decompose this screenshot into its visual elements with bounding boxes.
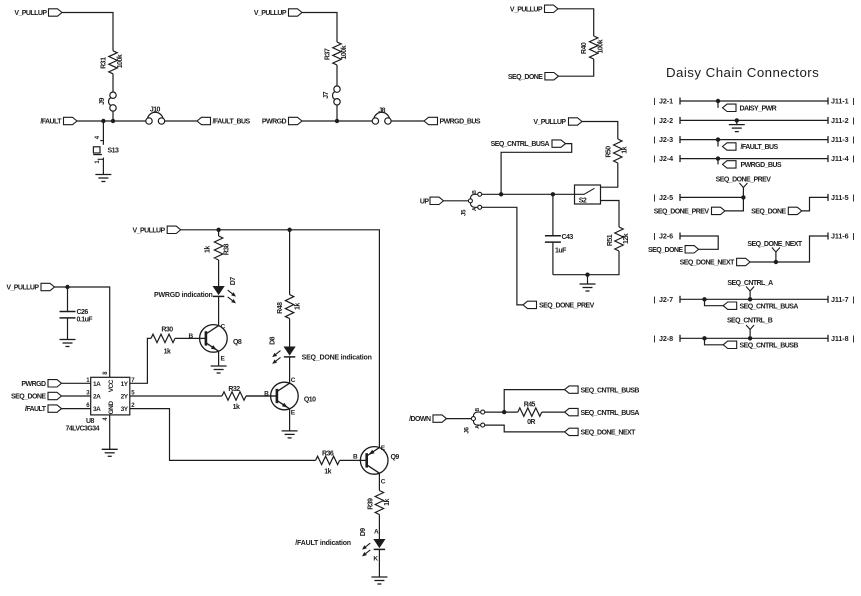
svg-text:SEQ_CNTRL_A: SEQ_CNTRL_A [727,280,773,287]
svg-text:C26: C26 [77,309,89,316]
svg-text:1A: 1A [93,381,101,388]
svg-text:2A: 2A [93,394,101,401]
svg-text:0R: 0R [527,419,535,426]
svg-text:PWRGD_BUS: PWRGD_BUS [440,119,481,126]
svg-text:R31: R31 [101,57,108,69]
svg-text:100k: 100k [598,39,605,53]
svg-text:J2-3: J2-3 [659,135,673,144]
svg-text:SEQ_DONE indication: SEQ_DONE indication [302,354,372,361]
svg-text:|: | [853,154,855,163]
svg-text:R32: R32 [228,386,240,393]
svg-text:|: | [654,334,656,343]
svg-text:S13: S13 [108,148,119,155]
svg-text:1k: 1k [324,468,331,475]
svg-text:J11-3: J11-3 [831,135,849,144]
svg-text:1Y: 1Y [121,381,129,388]
svg-text:J11-6: J11-6 [831,232,849,241]
svg-text:J6: J6 [463,427,470,434]
svg-text:J8: J8 [378,107,385,114]
svg-text:J2-2: J2-2 [659,116,673,125]
svg-text:R38: R38 [223,243,230,255]
svg-text:R51: R51 [607,234,614,246]
svg-text:Q9: Q9 [391,454,400,461]
svg-text:DAISY_PWR: DAISY_PWR [740,106,777,113]
svg-text:S2: S2 [579,198,587,205]
svg-text:1k: 1k [294,303,301,310]
svg-text:J11-2: J11-2 [831,116,849,125]
svg-text:Daisy Chain Connectors: Daisy Chain Connectors [666,65,819,80]
svg-text:SEQ_DONE: SEQ_DONE [648,247,683,254]
svg-text:1k: 1k [204,246,211,253]
svg-text:R36: R36 [322,450,334,457]
svg-text:J11-4: J11-4 [831,154,849,163]
svg-text:|: | [654,154,656,163]
svg-text:V_PULLUP: V_PULLUP [14,10,47,17]
svg-text:/FAULT indication: /FAULT indication [295,540,351,547]
svg-text:/FAULT_BUS: /FAULT_BUS [741,144,779,151]
svg-text:J10: J10 [150,106,161,113]
svg-text:SEQ_CNTRL_B: SEQ_CNTRL_B [727,318,773,325]
svg-text:UP: UP [420,198,430,205]
svg-text:GND: GND [108,401,115,415]
svg-text:R30: R30 [161,327,173,334]
svg-text:SEQ_DONE_PREV: SEQ_DONE_PREV [539,303,595,310]
svg-text:1k: 1k [164,349,171,356]
svg-text:0.1uF: 0.1uF [77,317,94,324]
svg-text:/FAULT: /FAULT [25,406,47,413]
svg-text:|: | [853,97,855,106]
svg-text:2Y: 2Y [121,394,129,401]
svg-text:100k: 100k [117,54,124,68]
svg-text:R48: R48 [277,302,284,314]
svg-text:SEQ_CNTRL_BUSB: SEQ_CNTRL_BUSB [581,387,640,394]
svg-text:|: | [853,116,855,125]
svg-text:V_PULLUP: V_PULLUP [254,10,287,17]
svg-text:J11-7: J11-7 [831,295,849,304]
svg-text:SEQ_CNTRL_BUSA: SEQ_CNTRL_BUSA [491,141,550,148]
svg-text:SEQ_DONE: SEQ_DONE [11,394,46,401]
svg-text:|: | [654,232,656,241]
svg-text:|: | [654,97,656,106]
svg-text:SEQ_DONE_PREV: SEQ_DONE_PREV [654,209,710,216]
svg-text:3Y: 3Y [121,406,129,413]
svg-text:74LVC3G34: 74LVC3G34 [66,426,100,433]
svg-text:D8: D8 [269,336,276,345]
svg-text:R37: R37 [325,48,332,60]
svg-text:D9: D9 [360,528,367,537]
svg-text:U8: U8 [86,418,95,425]
svg-text:J2-4: J2-4 [659,154,673,163]
svg-text:Q10: Q10 [304,397,316,404]
svg-text:V_PULLUP: V_PULLUP [533,119,566,126]
svg-text:R50: R50 [606,146,613,158]
svg-text:3A: 3A [93,406,101,413]
svg-text:1k: 1k [233,404,240,411]
svg-text:SEQ_DONE_NEXT: SEQ_DONE_NEXT [680,260,736,267]
svg-text:|: | [654,116,656,125]
svg-text:1k: 1k [622,146,629,153]
svg-text:V_PULLUP: V_PULLUP [510,6,543,13]
svg-text:J2-7: J2-7 [659,295,673,304]
svg-text:R39: R39 [367,498,374,510]
svg-text:|: | [853,193,855,202]
svg-text:|: | [853,334,855,343]
svg-text:J7: J7 [323,91,330,98]
svg-text:100k: 100k [341,45,348,59]
svg-text:R40: R40 [581,42,588,54]
svg-text:/DOWN: /DOWN [409,416,431,423]
svg-text:12k: 12k [623,233,630,244]
svg-text:SEQ_DONE: SEQ_DONE [508,74,543,81]
svg-text:SEQ_DONE: SEQ_DONE [751,209,786,216]
svg-text:SEQ_CNTRL_BUSB: SEQ_CNTRL_BUSB [740,343,799,350]
svg-text:SEQ_DONE_NEXT: SEQ_DONE_NEXT [747,241,803,248]
svg-text:R45: R45 [524,402,536,409]
svg-text:V_PULLUP: V_PULLUP [133,227,166,234]
svg-text:SEQ_CNTRL_BUSA: SEQ_CNTRL_BUSA [740,303,799,310]
svg-text:VCC: VCC [108,379,115,392]
svg-text:PWRGD: PWRGD [262,119,287,126]
svg-text:Q8: Q8 [233,339,242,346]
svg-text:/FAULT_BUS: /FAULT_BUS [213,119,251,126]
svg-text:PWRGD_BUS: PWRGD_BUS [741,162,782,169]
svg-text:|: | [853,295,855,304]
svg-text:1uF: 1uF [555,248,567,255]
svg-text:1k: 1k [384,499,391,506]
svg-text:J2-1: J2-1 [659,97,673,106]
svg-text:J11-8: J11-8 [831,334,849,343]
svg-text:J2-6: J2-6 [659,232,673,241]
svg-text:|: | [853,232,855,241]
svg-text:V_PULLUP: V_PULLUP [6,285,39,292]
svg-text:J11-5: J11-5 [831,193,849,202]
svg-text:|: | [654,295,656,304]
svg-text:|: | [654,193,656,202]
svg-text:SEQ_DONE_NEXT: SEQ_DONE_NEXT [581,430,637,437]
svg-text:D7: D7 [230,277,237,286]
svg-text:PWRGD: PWRGD [21,381,46,388]
svg-text:J2-5: J2-5 [659,193,673,202]
svg-text:SEQ_DONE_PREV: SEQ_DONE_PREV [716,176,772,183]
svg-text:J9: J9 [99,98,106,105]
svg-text:J11-1: J11-1 [831,97,849,106]
svg-text:PWRGD indication: PWRGD indication [154,292,213,299]
svg-text:|: | [853,135,855,144]
svg-text:|: | [654,135,656,144]
svg-text:J5: J5 [460,209,467,216]
svg-text:J2-8: J2-8 [659,334,673,343]
svg-text:/FAULT: /FAULT [40,119,62,126]
svg-text:C43: C43 [562,234,574,241]
svg-text:SEQ_CNTRL_BUSA: SEQ_CNTRL_BUSA [581,410,640,417]
